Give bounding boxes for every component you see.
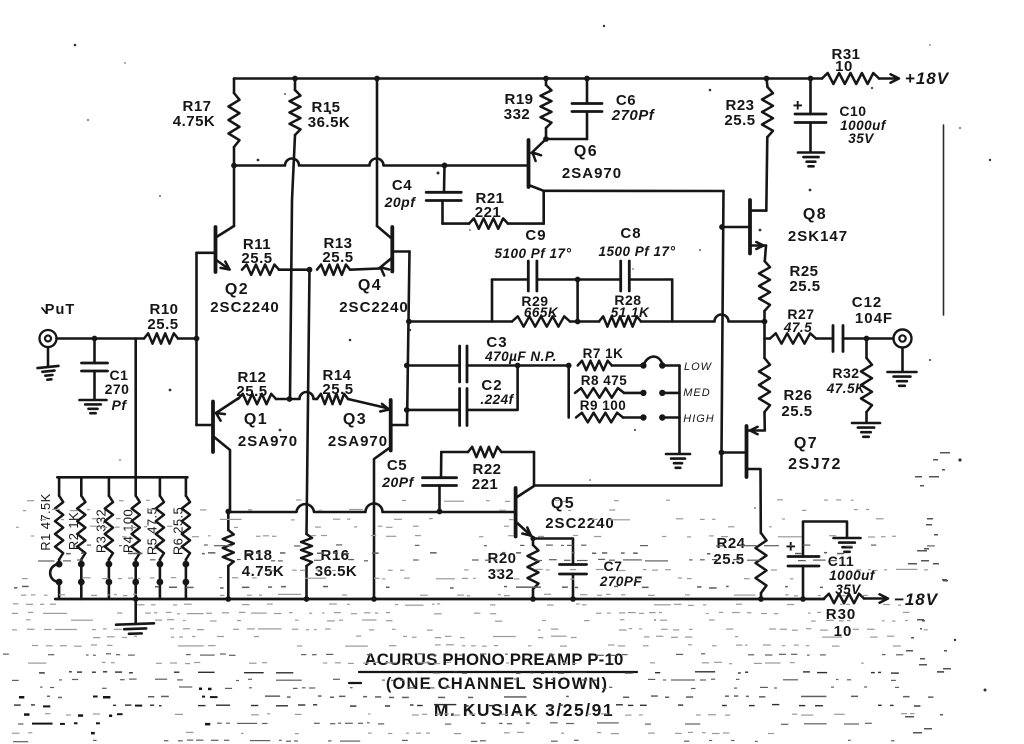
ground below C10 [798, 151, 824, 154]
svg-text:R6 25.5: R6 25.5 [171, 507, 186, 555]
node dot R10/base line [194, 336, 200, 342]
svg-text:C10: C10 [839, 103, 866, 119]
wire EQ line to R25 node with hop over gate vertical [641, 315, 765, 322]
svg-text:25.5: 25.5 [147, 316, 178, 333]
svg-text:332: 332 [488, 566, 515, 583]
resistor R1 [38, 477, 63, 599]
node dot R17/Q2 [231, 163, 237, 169]
svg-text:Q2: Q2 [225, 281, 249, 298]
resistor R30 [824, 594, 864, 640]
ground above C11 [834, 537, 861, 540]
svg-text:C4: C4 [392, 177, 412, 194]
wire Q6 emitter node [546, 138, 587, 141]
resistor R26 [759, 322, 813, 421]
node dot EQ mid bottom [575, 319, 581, 325]
svg-text:C8: C8 [620, 225, 641, 242]
wire Q1/Q2 base vertical [195, 253, 198, 425]
svg-text:5100 Pf 17°: 5100 Pf 17° [495, 246, 572, 261]
wire vertical to R1-R6 array [134, 339, 137, 478]
svg-text:R16: R16 [320, 547, 349, 564]
svg-text:10: 10 [835, 58, 853, 75]
svg-text:221: 221 [472, 476, 499, 493]
svg-text:R4 100: R4 100 [120, 509, 135, 553]
switch EQ select (LOW/MED/HIGH) [640, 357, 715, 453]
svg-text:C12: C12 [852, 294, 883, 311]
resistor R18 [223, 512, 284, 600]
capacitor C1 [82, 339, 130, 414]
svg-text:1500 Pf 17°: 1500 Pf 17° [599, 244, 676, 259]
svg-text:Q1: Q1 [244, 411, 268, 428]
svg-text:47.5K: 47.5K [826, 381, 866, 396]
resistor R5 [145, 477, 164, 599]
mark dash before subtitle [349, 682, 361, 684]
svg-text:20pf: 20pf [384, 194, 417, 210]
node dot base/C2 line [404, 407, 410, 413]
svg-text:4.75K: 4.75K [242, 563, 285, 580]
node dot C3/C2 right join [515, 363, 521, 369]
wire EQ bottom line with R29 R28 [409, 320, 512, 323]
svg-text:R18: R18 [243, 547, 272, 564]
resistor R19 [504, 79, 552, 140]
capacitor C5 [381, 452, 456, 512]
scan artifact vertical line right side [943, 125, 945, 315]
svg-text:Q6: Q6 [574, 143, 598, 160]
svg-text:−18V: −18V [894, 590, 939, 609]
capacitor C9 [495, 227, 572, 291]
ground below C1 [80, 399, 107, 402]
resistor R16 [301, 534, 357, 599]
svg-text:MED: MED [683, 387, 710, 399]
node dot R25/R26/R27 [762, 319, 768, 325]
resistor R6 [171, 477, 190, 599]
svg-text:Q5: Q5 [551, 495, 575, 512]
svg-text:104F: 104F [855, 310, 893, 327]
resistor R31 [822, 46, 879, 84]
node dot base/EQ line [406, 319, 412, 325]
resistor R15 [290, 79, 351, 136]
node dot R7/R8/R9 branch [566, 363, 572, 369]
svg-text:ACURUS PHONO PREAMP P-10: ACURUS PHONO PREAMP P-10 [364, 650, 623, 669]
svg-text:2SA970: 2SA970 [562, 165, 622, 182]
resistor R29 [512, 293, 570, 327]
svg-text:270PF: 270PF [599, 574, 643, 589]
svg-text:2SK147: 2SK147 [788, 228, 848, 245]
wire Q4/Q3 base vertical [407, 252, 410, 426]
node dot C4 branch [442, 163, 448, 169]
svg-text:C5: C5 [387, 457, 407, 474]
svg-text:PuT: PuT [45, 302, 75, 318]
svg-text:665K: 665K [524, 305, 559, 320]
resistor R3 [94, 477, 113, 599]
wire EQ box right vertical [671, 280, 674, 322]
connector output jack [894, 330, 912, 348]
wire R12/R14 node hop over R16 vertical [290, 392, 318, 399]
svg-text:R24: R24 [716, 535, 745, 552]
svg-text:R1 47.5K: R1 47.5K [38, 493, 53, 550]
svg-text:M. KUSIAK 3/25/91: M. KUSIAK 3/25/91 [434, 700, 614, 720]
node dot Q5 emitter [530, 536, 535, 541]
svg-text:R3 332: R3 332 [94, 509, 109, 553]
resistor R13 [317, 235, 379, 275]
svg-text:20Pf: 20Pf [381, 474, 414, 490]
svg-text:25.5: 25.5 [789, 278, 820, 295]
resistor R28 [599, 292, 650, 327]
transistor Q8 2SK147 (JFET) [722, 200, 766, 261]
capacitor C2 [407, 366, 518, 426]
svg-text:(ONE CHANNEL SHOWN): (ONE CHANNEL SHOWN) [386, 675, 608, 693]
resistor R14 [317, 367, 389, 412]
svg-text:470µF N.P.: 470µF N.P. [484, 349, 557, 364]
svg-text:2SC2240: 2SC2240 [210, 299, 280, 316]
node dot Q7 gate [719, 450, 725, 456]
resistor R7 [578, 346, 644, 370]
resistor R11 [241, 236, 309, 275]
svg-text:Pf: Pf [112, 397, 128, 413]
capacitor C8 [599, 225, 676, 291]
node dot bus/R18 [225, 509, 231, 515]
svg-text:25.5: 25.5 [236, 383, 267, 400]
resistor R17 [173, 79, 240, 166]
svg-text:Q8: Q8 [803, 206, 827, 223]
wire R15 bottom to R12/R14 node (vertical V1) [290, 135, 295, 399]
node top-rail junction dots [292, 76, 298, 82]
node dot base/C3 line [404, 363, 410, 369]
transistor Q6 2SA970 [529, 139, 547, 187]
resistor R24 [713, 533, 766, 599]
transistor Q3 2SA970 [374, 400, 408, 599]
node dots on bottom rail [225, 596, 231, 602]
resistor R10 [144, 301, 197, 344]
svg-text:2SA970: 2SA970 [238, 433, 298, 450]
capacitor C7 [533, 539, 642, 600]
wire second rail (Q2 collector / Q6 base line) [234, 159, 529, 166]
wire Q6 collector to line [529, 185, 544, 191]
ground below output jack [901, 348, 904, 372]
svg-text:47.5: 47.5 [783, 320, 812, 335]
svg-text:C9: C9 [525, 227, 546, 244]
svg-text:+18V: +18V [905, 69, 950, 88]
transistor Q1 2SA970 [197, 399, 239, 512]
ground below R-array (R4 column) [134, 599, 137, 623]
node dot R11/R13 junction [307, 267, 313, 273]
ground below R32 [852, 422, 880, 425]
wire EQ box mid vertical [576, 280, 579, 322]
capacitor C4 [384, 165, 462, 223]
connector input jack [40, 330, 57, 347]
svg-text:36.5K: 36.5K [308, 114, 351, 131]
resistor R12 [236, 369, 289, 404]
wire Q8 gate vertical down to Q7 gate and Q5 collector [534, 191, 724, 486]
svg-text:25.5: 25.5 [241, 250, 272, 267]
scan noise speckles [74, 44, 77, 47]
resistor R4 [120, 477, 139, 599]
wire C3 line to R7 [518, 364, 569, 367]
wire R-array top bus [57, 476, 187, 479]
svg-text:+: + [793, 96, 803, 115]
node dot EQ mid top [575, 277, 581, 283]
svg-text:2SC2240: 2SC2240 [339, 299, 409, 316]
wire EQ box top line [492, 278, 528, 281]
scan noise dashed rows [27, 500, 34, 501]
svg-text:Q3: Q3 [343, 411, 367, 428]
capacitor C6 [572, 79, 656, 140]
wire Q1/Q5 base bus [228, 504, 515, 513]
node dot C1 branch [92, 336, 98, 342]
svg-text:4.75K: 4.75K [173, 113, 216, 130]
svg-text:Q4: Q4 [358, 277, 382, 294]
svg-text:25.5: 25.5 [781, 403, 812, 420]
svg-text:R5 47.5: R5 47.5 [145, 507, 160, 555]
resistor R8 [569, 366, 644, 398]
svg-text:221: 221 [475, 204, 502, 221]
resistor R23 [724, 79, 773, 211]
wire R16 vertical (R11/R13 node down to R16) [307, 270, 310, 534]
node dot Q8 gate [719, 224, 725, 230]
ground below switch [666, 453, 690, 456]
svg-text:R2 1K: R2 1K [66, 512, 81, 550]
wire EQ box left vertical [491, 280, 494, 322]
resistor R25 [759, 261, 821, 322]
transistor Q5 2SC2240 [516, 452, 534, 538]
svg-text:332: 332 [504, 106, 531, 123]
resistor R27 [765, 306, 834, 344]
transistor Q7 2SJ72 (JFET) [722, 412, 765, 533]
transistor Q2 2SC2240 [197, 166, 235, 273]
svg-text:2SJ72: 2SJ72 [788, 456, 842, 473]
transistor Q4 2SC2240 [377, 79, 410, 276]
svg-text:R8 475: R8 475 [581, 373, 628, 388]
wire +18V top rail [234, 77, 822, 80]
scan noise right column dashes [917, 619, 924, 621]
svg-text:270: 270 [105, 381, 130, 397]
capacitor C12 [833, 294, 893, 352]
capacitor C10 (polarized) [793, 79, 887, 152]
svg-text:R26: R26 [783, 387, 812, 404]
node dot Q6 emitter [543, 136, 549, 142]
svg-text:LOW: LOW [684, 361, 713, 373]
wire input to R10 [57, 337, 145, 340]
svg-text:25.5: 25.5 [322, 249, 353, 266]
svg-text:R9 100: R9 100 [580, 398, 627, 413]
node dot bus/C5 [437, 509, 443, 515]
svg-text:36.5K: 36.5K [315, 563, 358, 580]
svg-text:2SA970: 2SA970 [328, 433, 388, 450]
svg-text:25.5: 25.5 [322, 381, 353, 398]
node dot R32 branch [864, 336, 870, 342]
resistor R21 [443, 190, 544, 229]
svg-text:Q7: Q7 [794, 435, 818, 452]
resistor R32 [826, 339, 872, 423]
svg-text:R32: R32 [832, 365, 859, 381]
wire -18V arrow [864, 597, 886, 600]
node dot R12/R14 junction [287, 396, 293, 402]
svg-text:51.1K: 51.1K [611, 305, 650, 320]
svg-text:2SC2240: 2SC2240 [545, 515, 615, 532]
node dot R4/rail [133, 596, 139, 602]
svg-text:35V: 35V [848, 131, 874, 146]
wire Q6 collector line to Q8 gate vertical [544, 190, 724, 193]
capacitor C3 [407, 334, 557, 382]
capacitor C11 (polarized) [786, 522, 876, 600]
svg-text:+: + [786, 537, 796, 556]
svg-text:.224f: .224f [480, 392, 514, 407]
wire +18V arrow [879, 77, 897, 80]
svg-text:R7 1K: R7 1K [583, 346, 624, 361]
svg-text:25.5: 25.5 [724, 112, 755, 129]
resistor R20 [487, 539, 538, 600]
wire -18V bottom rail [55, 598, 824, 601]
resistor R2 [66, 477, 85, 599]
svg-text:270Pf: 270Pf [611, 107, 656, 124]
svg-text:HIGH: HIGH [683, 413, 715, 425]
ground below input jack [47, 348, 50, 367]
resistor R9 [569, 393, 644, 422]
resistor R22 [441, 447, 534, 493]
